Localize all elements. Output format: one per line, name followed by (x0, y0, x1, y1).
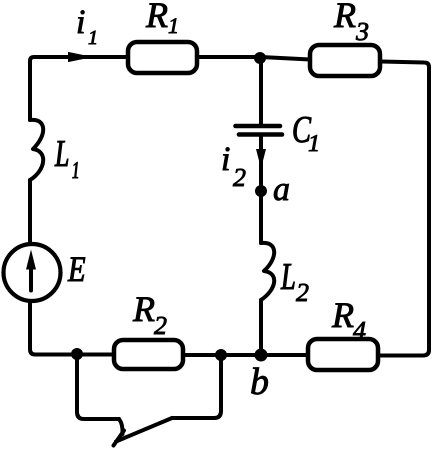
wire switch branch right vertical (172, 355, 221, 418)
node a (255, 185, 267, 197)
wire middle branch (C1 to node a) (259, 137, 263, 192)
resistor R1 (128, 42, 197, 73)
wire middle branch (L2 to node b) (259, 300, 263, 355)
wire bottom (node b to R2 right) (183, 353, 261, 357)
label C1 (294, 117, 318, 151)
label R2 (133, 297, 167, 334)
inductor L2 (261, 243, 274, 300)
resistor R3 (310, 45, 380, 76)
source E arrow shaft (29, 266, 33, 291)
wire right side (R3 to R4 via right edge) (378, 62, 429, 356)
capacitor C1 top plate (236, 124, 281, 129)
wire bottom-left (R2 left to corner, up to E) (30, 302, 114, 355)
wire middle branch (node a to L2) (259, 191, 263, 243)
node switch right (215, 349, 227, 361)
label a (274, 184, 289, 200)
label E (68, 257, 85, 281)
label b (251, 368, 267, 395)
label R4 (332, 303, 366, 339)
label i2 (223, 148, 246, 187)
arrow i1 head (68, 52, 93, 62)
label R3 (334, 3, 368, 40)
label i1 (78, 11, 96, 45)
source E circle (4, 244, 61, 301)
resistor R4 (308, 339, 378, 370)
wire switch branch left vertical (77, 354, 119, 419)
wire left (E top to L1 bottom) (28, 180, 32, 242)
arrow i2 head (256, 149, 266, 169)
wire bottom (R4 left to node b) (261, 353, 308, 357)
wire top-left horizontal with corner (30, 57, 128, 120)
wire middle branch (top node to C1) (259, 59, 263, 124)
node switch left (71, 348, 83, 360)
node top (254, 52, 266, 64)
label L2 (281, 264, 309, 301)
label L1 (55, 141, 78, 178)
wire top middle (R1 right to node) (197, 55, 261, 59)
source E arrow head (26, 250, 36, 270)
capacitor C1 bottom plate (239, 132, 282, 137)
wire switch contact hook (119, 419, 123, 434)
switch blade S (116, 418, 172, 442)
label R1 (146, 3, 177, 33)
switch blade barb (114, 431, 125, 446)
wire top right (node to R3) (261, 57, 310, 60)
resistor R2 (114, 340, 183, 369)
node b (255, 349, 268, 362)
inductor L1 (30, 120, 43, 180)
